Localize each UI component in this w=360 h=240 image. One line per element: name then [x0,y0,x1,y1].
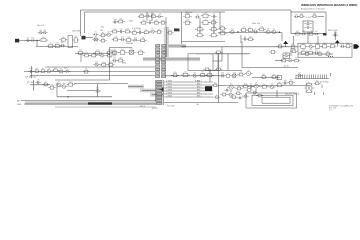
wire c17 drop [334,32,336,41]
wire out h [219,85,311,87]
resistor R36 [201,14,210,17]
capacitor C5 [93,33,98,35]
svg-text:560: 560 [284,80,287,82]
wire group v214 [213,19,215,34]
wire filter bottom [30,75,155,77]
resistor R97 [203,68,210,70]
transistor Q6 [229,30,236,33]
resistor R59 [313,45,321,49]
capacitor C7 [145,15,150,18]
resistor R8 [77,51,84,55]
svg-text:47u: 47u [64,67,67,69]
capacitor C10 [137,31,142,34]
svg-text:100n: 100n [79,50,83,52]
svg-text:1 / 1: 1 / 1 [329,110,333,112]
power flag triangle 1 [283,41,288,44]
node A [36,40,37,41]
svg-text:4k7: 4k7 [120,57,123,59]
wire sidetone top [298,53,333,55]
svg-text:1u: 1u [249,27,251,29]
wire rx line [24,71,155,73]
transistor Q17 [227,85,235,89]
resistor R72 [39,70,46,73]
resistor R65 [290,50,297,53]
capacitor C30 [294,15,299,18]
svg-text:47k: 47k [279,43,282,45]
svg-text:1n: 1n [331,43,333,45]
wire mid h3 [196,53,250,55]
wire bus drop right box [290,10,292,12]
trimmer VR1 [38,31,44,33]
svg-text:2k2: 2k2 [327,51,330,53]
resistor R5 [72,38,79,42]
wire box inner [318,16,324,18]
svg-text:2k2: 2k2 [316,43,319,45]
capacitor C25 [224,89,229,92]
diode D4 [64,70,70,72]
resistor R37 [201,21,210,25]
capacitor C18 [340,45,345,48]
svg-text:22k: 22k [159,14,162,16]
resistor R101 [246,89,253,91]
resistor R38e [209,34,218,37]
svg-text:560: 560 [295,58,298,60]
wire bottom bus 3 [164,102,238,104]
crystal X1 [92,38,99,41]
diode D3 [287,59,293,61]
svg-text:47n: 47n [96,50,99,52]
svg-text:560: 560 [162,20,165,22]
svg-text:100k: 100k [221,72,225,74]
svg-text:2k2: 2k2 [193,72,196,74]
svg-text:AF5 o: AF5 o [197,95,202,98]
connector K1 column A [156,45,160,78]
wire agc [252,77,280,79]
svg-text:47k: 47k [37,79,40,81]
wire rx return [55,79,110,81]
svg-text:AF1 o: AF1 o [197,83,202,86]
svg-text:AF4 o: AF4 o [197,92,202,95]
svg-text:100k: 100k [244,83,248,85]
wire in gray horizontal [143,58,200,60]
capacitor C24 [282,82,287,85]
wire loop v277 [276,90,278,97]
resistor R30 [111,51,119,54]
svg-text:22k 100n: 22k 100n [185,12,192,14]
resistor R27 [112,38,120,41]
transistor Q5 [149,30,156,33]
resistor R73 [52,69,59,72]
svg-text:1n: 1n [222,30,224,32]
svg-text:0V 12V: 0V 12V [152,108,158,110]
svg-text:8k2: 8k2 [85,69,88,71]
resistor R86 [67,83,75,86]
svg-text:1u: 1u [244,36,246,38]
capacitor C11 [120,38,125,41]
wire mid chain [36,46,78,48]
svg-text:o GND5: o GND5 [166,96,172,98]
wire stub q17 [230,90,232,93]
wire stair core 2 [142,90,155,92]
svg-text:22k: 22k [292,43,295,45]
svg-text:4k7: 4k7 [63,83,66,85]
svg-text:10u 4.7k: 10u 4.7k [37,25,44,27]
svg-text:100k: 100k [127,37,131,39]
wire ptt long2 [57,96,112,98]
resistor R38d [209,28,218,31]
wire stair core 3 [152,94,163,96]
resistor R55 [247,38,254,41]
wire stub q18 [255,89,257,93]
resistor R23 [123,30,131,33]
svg-text:1n: 1n [302,43,304,45]
svg-text:22k: 22k [108,31,111,33]
resistor R80 [224,74,231,77]
svg-text:1n: 1n [197,14,199,16]
capacitor C9 [118,30,123,33]
wire in gray vertical [166,27,168,60]
svg-text:4u7: 4u7 [101,52,104,54]
resistor R15 [107,64,115,67]
wire bus drop left2 [84,12,86,33]
resistor R76 [171,74,178,77]
svg-text:100n 5R6: 100n 5R6 [72,31,80,33]
svg-text:560p: 560p [122,63,126,65]
resistor R38c [195,34,204,37]
capacitor C31 [301,33,306,35]
wire tick stub [330,73,332,76]
resistor R84 [42,83,49,86]
resistor R17 [138,15,146,18]
svg-text:330: 330 [113,57,116,59]
svg-text:2k2: 2k2 [184,71,187,73]
capacitor C13 [195,16,200,19]
svg-text:47p: 47p [101,27,104,29]
resistor R1 [39,39,48,42]
svg-text:22k: 22k [43,30,46,32]
resistor R66 [303,53,310,56]
svg-text:4k7: 4k7 [130,49,133,51]
svg-text:220n 0.047: 220n 0.047 [328,30,337,32]
connector K1 column B [162,45,166,78]
svg-text:7F 7F: 7F 7F [284,66,290,68]
wire drop x293 [293,36,295,45]
resistor R51 [218,32,226,35]
resistor R21 [159,22,166,25]
ferrite bead FB1 [160,88,164,92]
svg-text:22k: 22k [140,49,143,51]
svg-text:10k: 10k [261,26,264,28]
svg-text:47k: 47k [341,43,344,45]
svg-text:2k2: 2k2 [121,49,124,51]
trace gray stub [110,50,116,57]
pin labels [166,80,202,98]
transistor Q4 [93,63,100,66]
trace gray vertical [164,27,169,61]
transistor Q3 [99,54,106,57]
wire T2 drop [307,32,309,36]
wire mid v228 [227,54,229,71]
svg-text:47k: 47k [155,20,158,22]
svg-text:100k: 100k [113,19,117,21]
IC U3 blob [205,86,212,91]
svg-text:1k: 1k [319,51,321,53]
wire top bus V+ lower [85,11,226,13]
svg-text:1k: 1k [240,71,242,73]
resistor R58 [299,45,307,49]
resistor R10 [106,51,113,55]
wire stair core 1 [128,86,143,88]
resistor R68 [324,53,331,56]
svg-text:AF3 o: AF3 o [197,89,202,92]
resistor R32 [137,51,145,54]
svg-text:100k: 100k [204,12,208,14]
svg-text:560: 560 [74,36,77,38]
resistor R92 [287,81,294,84]
wire q16 v [97,84,99,97]
svg-text:4k7: 4k7 [85,52,88,54]
trimmer VR2 [42,31,48,33]
resistor R57 [289,45,296,48]
transistor Q7 [264,30,271,34]
svg-text:4u7: 4u7 [58,82,61,84]
svg-text:100k: 100k [233,72,237,74]
feedback loop mid [252,95,293,105]
resistor R98 [220,93,227,96]
resistor R33 [117,59,125,62]
svg-text:4k7: 4k7 [95,36,98,38]
electrolytic C4 [68,36,73,48]
resistor R54 [258,28,266,31]
svg-text:o GND0: o GND0 [166,81,172,83]
resistor R12 [90,54,98,57]
svg-text:4k7: 4k7 [309,50,312,52]
svg-text:100k: 100k [60,69,64,71]
svg-text:4k7: 4k7 [296,31,299,33]
resistor R77 [181,73,189,76]
IC U2 blob [174,29,180,32]
svg-text:100k: 100k [95,61,99,63]
inductor L3 [283,54,290,57]
connector dots right [328,56,333,57]
svg-text:4k7: 4k7 [249,36,252,38]
resistor R11 [83,54,90,57]
svg-text:100n: 100n [69,81,73,83]
transistor Q12 [244,71,252,75]
transformer T2 [303,21,313,32]
svg-text:560: 560 [293,48,296,50]
svg-text:560: 560 [313,13,316,15]
resistor R50 [218,27,226,30]
resistor R2 [47,44,55,47]
wire mid h1 [182,41,226,43]
resistor R67 [316,53,323,56]
svg-text:Analog interface schematic: Analog interface schematic [301,7,325,10]
resistor R38 [209,21,217,24]
resistor R9 [94,51,101,55]
transistor Q14 [55,83,62,87]
svg-text:22k: 22k [54,67,57,69]
resistor R81 [237,73,244,76]
svg-text:10k: 10k [196,104,199,106]
wire mid h67 [242,67,298,69]
wire chain drop [281,33,283,42]
resistor R52 [240,28,248,31]
transistor Q8 [270,30,277,34]
capacitor C1 [25,39,30,41]
svg-text:1k: 1k [255,28,257,30]
resistor R60 [321,45,329,48]
terminal strip ticks [277,75,327,81]
connector J1 body [15,39,19,43]
trace gray horizontal [143,57,200,61]
trace gray stair 2 [140,89,156,93]
wire ptt drop [33,80,35,91]
resistor R24 [130,32,138,35]
output arrow [354,44,360,49]
svg-text:10k: 10k [114,28,117,30]
svg-text:10k: 10k [306,51,309,53]
svg-text:4u7: 4u7 [141,37,144,39]
resistor R89 [242,85,249,88]
wire flag stem [285,44,287,47]
svg-text:1n: 1n [248,70,250,72]
capacitor C32 [314,33,319,35]
wire aux line [55,106,156,108]
capacitor C3 [60,44,65,48]
capacitor C21 [220,74,225,77]
wire bus drop x181 [181,12,183,44]
section box PA [298,43,352,57]
svg-text:22k: 22k [120,28,123,30]
capacitor C22 [35,81,41,84]
wire bus drop x220 [219,12,221,30]
node C [279,32,280,33]
svg-text:100n: 100n [42,37,46,39]
resistor R74 [58,70,65,73]
svg-text:o GND3: o GND3 [166,90,172,92]
svg-text:100n 10k: 100n 10k [252,23,260,25]
resistor R29 [139,39,147,42]
svg-text:8k2: 8k2 [39,30,42,32]
svg-text:4k7: 4k7 [315,31,318,33]
shield bar [88,102,112,104]
svg-text:4u7: 4u7 [238,85,241,87]
svg-text:AF2 o: AF2 o [197,86,202,89]
svg-text:4u7: 4u7 [250,83,253,85]
resistor R40 [298,15,304,18]
svg-text:MIC 8: MIC 8 [140,106,145,108]
wire bus drop x166 [165,17,167,29]
wire group v200 [199,18,201,33]
resistor R85 [48,86,55,89]
wire bus drop x152 [151,12,153,21]
resistor R62 [344,45,351,48]
svg-text:1u: 1u [147,13,149,15]
transistor Q22 [251,91,257,94]
section box U10 [291,12,326,34]
resistor R63 [299,51,307,54]
svg-text:4k7: 4k7 [61,42,64,44]
resistor R19 [140,22,148,25]
resistor R95 [215,51,222,53]
resistor R41 [311,15,317,18]
resistor R69 [280,59,288,62]
svg-text:WIRELESS INTERFACE BOARD (4 WI: WIRELESS INTERFACE BOARD (4 WIRE) [301,3,357,7]
svg-text:2k2: 2k2 [27,38,30,40]
transistor Q10 [45,70,52,73]
svg-text:GND: GND [17,104,22,106]
wire low row [75,53,114,55]
svg-text:560: 560 [119,18,122,20]
svg-text:330: 330 [51,84,54,86]
svg-text:1n: 1n [263,83,265,85]
svg-text:100k: 100k [168,30,172,32]
svg-text:8k2: 8k2 [221,25,224,27]
svg-text:22k: 22k [310,31,313,33]
wire det line [165,75,225,77]
resistor R99 [235,92,242,95]
resistor R43 [307,33,314,35]
wire drop x308b [307,36,309,43]
capacitor C20 [28,70,34,73]
trace gray stair 1 [128,85,144,89]
resistor R14 [100,64,108,67]
svg-text:4k7: 4k7 [121,36,124,38]
svg-text:47n: 47n [151,28,154,30]
svg-text:4u7: 4u7 [158,29,161,31]
resistor R83 [270,76,277,79]
svg-text:o GND1: o GND1 [166,84,172,86]
transistor Q13 [296,74,302,77]
svg-text:4u7: 4u7 [307,21,310,23]
svg-text:1u: 1u [50,43,52,45]
resistor R102 [256,94,263,96]
svg-text:47n: 47n [174,72,177,74]
svg-text:2k2: 2k2 [316,80,319,82]
svg-text:47k: 47k [139,29,142,31]
diode D1 [157,15,163,17]
wire filter box left [109,48,111,81]
svg-text:1N4148: 1N4148 [126,43,133,45]
resistor R26 [155,31,162,34]
capacitor C8 [147,22,152,25]
crystal X2 [127,50,135,54]
transistor Q1 blob [82,36,86,40]
svg-text:22k: 22k [315,50,318,52]
svg-text:1n: 1n [45,81,47,83]
trace gray bottom [25,101,156,104]
resistor R35 [183,21,191,24]
capacitor C6 [112,21,117,24]
transistor Q11 [191,74,198,77]
svg-text:100n: 100n [56,43,60,45]
svg-text:4k7: 4k7 [263,74,266,76]
feedback loop inner [262,97,290,103]
connector J2 column [156,80,164,105]
svg-text:100n: 100n [186,19,190,21]
transformer T4 [304,84,314,93]
transistor Q18 [252,84,260,88]
svg-text:100k: 100k [134,37,138,39]
svg-text:4x7k 100n: 4x7k 100n [320,82,329,84]
inductor L2b [304,26,311,28]
svg-text:4k7: 4k7 [302,49,305,51]
resistor R87 [212,84,219,87]
wire ptt h [30,84,50,86]
svg-text:10k: 10k [115,36,118,38]
resistor R42 [294,32,301,35]
